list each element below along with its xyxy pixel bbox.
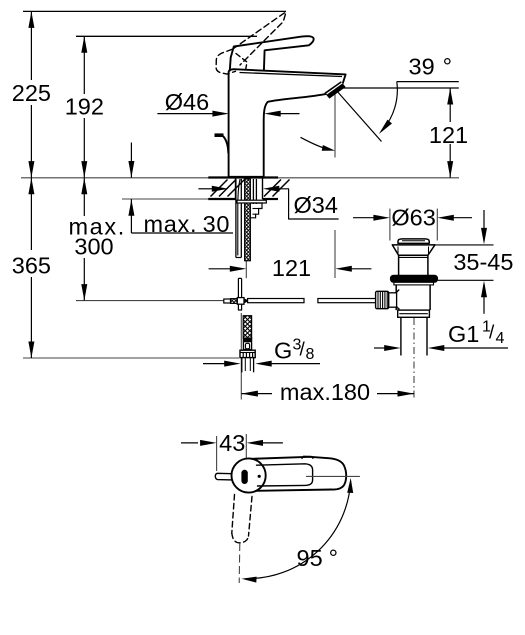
dashed handle center line xyxy=(238,543,241,583)
faucet body + spout outline xyxy=(229,69,346,177)
counter cut bottom line left xyxy=(208,198,235,200)
waste body left bulge xyxy=(395,290,399,309)
extension line: top of lifted lever (225 ref) xyxy=(23,10,286,12)
shank: right tube xyxy=(252,179,254,204)
label max. xyxy=(66,216,126,238)
top view: slot bar xyxy=(242,470,247,483)
label max180 xyxy=(272,383,377,403)
svg-text:43: 43 xyxy=(219,430,245,456)
top view: top notch xyxy=(302,456,313,458)
pull rod bend xyxy=(224,137,229,153)
d46 underline / leader xyxy=(157,113,213,115)
dimension line 35-45 upper xyxy=(483,210,485,241)
dimension line 192 xyxy=(83,36,85,177)
countertop surface line xyxy=(21,177,459,179)
mounting washer xyxy=(237,200,266,203)
waste body xyxy=(395,285,397,310)
extension line: faucet supply axis (max180 left) xyxy=(240,313,242,400)
dimension line max 300 xyxy=(83,178,85,301)
G3/8 right tail / underline xyxy=(271,363,320,365)
svg-text:121: 121 xyxy=(429,122,468,148)
dimension line d63 left tail xyxy=(353,217,384,219)
svg-text:8: 8 xyxy=(306,346,315,363)
dimension line max180 xyxy=(241,393,414,395)
d46 right tail xyxy=(270,113,300,115)
shank: threaded rod xyxy=(245,179,251,261)
dimension line 121 right xyxy=(449,88,451,178)
top view: dot xyxy=(258,475,261,478)
extension line: waste rim right (d63) xyxy=(436,209,438,241)
waste flange xyxy=(394,282,434,285)
svg-text:max.180: max.180 xyxy=(280,379,370,405)
label 300 xyxy=(71,238,118,258)
lifted handle inner dashes xyxy=(236,54,247,71)
label 225 xyxy=(12,80,52,105)
extension line: top of lever (192 ref) xyxy=(76,35,257,37)
waste gasket (black) xyxy=(390,275,437,282)
svg-text:365: 365 xyxy=(12,252,51,278)
extension line: hose end level (365 ref) xyxy=(23,357,239,359)
top view: pivot tab xyxy=(215,473,232,480)
rod left stub xyxy=(224,299,231,303)
svg-text:Ø46: Ø46 xyxy=(165,89,209,115)
dimension line 35-45 lower xyxy=(483,284,485,314)
extension line: spout outlet vertical (121 reach, upper) xyxy=(334,90,336,158)
horizontal pop-up rod (broken) xyxy=(248,299,304,303)
underline of 39 deg label xyxy=(397,81,459,83)
top view: handle down position (dashed) xyxy=(232,495,235,534)
waste rim cone xyxy=(392,244,435,246)
dimension line d63 right tail xyxy=(443,217,472,219)
dimension line max30 upper xyxy=(130,143,132,178)
svg-text:35-45: 35-45 xyxy=(453,249,513,275)
supply nipple tube xyxy=(241,358,243,373)
svg-text:300: 300 xyxy=(74,233,113,259)
dimension 121 reach left tail xyxy=(209,268,241,270)
dimension line 225 xyxy=(30,11,32,177)
svg-text:/: / xyxy=(489,323,495,344)
clamp wedge xyxy=(244,298,248,303)
d34 leader elbow + underline xyxy=(277,189,339,219)
counter cut bottom line right xyxy=(263,198,279,200)
waste plug cap xyxy=(398,239,429,244)
top view: pivot circle xyxy=(232,458,266,492)
43 right extent xyxy=(245,434,247,463)
pop-up vertical rod xyxy=(238,278,241,297)
cross clamp hatched block xyxy=(231,299,238,304)
hose crimp collar xyxy=(243,338,251,349)
top view: lever inner outline xyxy=(257,464,313,486)
label 121 height xyxy=(428,122,470,144)
center line of faucet shank xyxy=(245,261,247,278)
svg-text:Ø63: Ø63 xyxy=(391,204,435,230)
braided supply hose xyxy=(243,316,251,338)
waste knob neck xyxy=(389,293,397,307)
hose bottom cap xyxy=(236,257,241,259)
counter hatching xyxy=(211,180,228,197)
dimension line 365 xyxy=(30,178,32,358)
extension line: spout outlet vertical (121 reach, lower) xyxy=(334,230,336,278)
extension line: spout outlet level xyxy=(339,87,459,89)
shank: curved hose xyxy=(235,179,237,258)
svg-text:Ø34: Ø34 xyxy=(293,192,337,218)
handle lever lifted (dashed) xyxy=(233,12,287,65)
hose inner curve xyxy=(238,180,240,256)
stream direction ray 39deg xyxy=(336,90,382,142)
dimension line max30 lower + bracket xyxy=(130,199,132,233)
waste knurled knob xyxy=(376,291,389,308)
svg-text:192: 192 xyxy=(65,93,104,119)
pull rod horizontal xyxy=(215,133,224,137)
label 192 xyxy=(64,94,105,118)
handle lever (solid position) xyxy=(230,36,314,70)
waste tailpipe xyxy=(400,317,402,355)
counter cut top line xyxy=(208,176,278,178)
svg-text:39°: 39° xyxy=(409,53,453,79)
svg-text:4: 4 xyxy=(496,330,505,347)
extension line: waste rim left (d63) xyxy=(389,209,391,241)
center line of waste set xyxy=(413,318,415,400)
mounting nut steps xyxy=(251,203,262,218)
dimension 121 reach right tail xyxy=(341,268,371,270)
top view: center line xyxy=(306,475,360,477)
svg-text:121: 121 xyxy=(272,255,311,281)
aerator (black slanted outlet) xyxy=(324,81,345,98)
d34 left arrow tail xyxy=(198,188,212,190)
top view: 43 dimension xyxy=(181,442,198,444)
arc 39 deg xyxy=(382,82,398,131)
hose right wall xyxy=(240,179,242,258)
svg-text:G1: G1 xyxy=(448,321,479,347)
dashed handle end cap xyxy=(232,533,249,543)
counter underside line (thin part) xyxy=(122,198,209,200)
43 left extent xyxy=(216,436,218,471)
lifted handle hub (dashed) xyxy=(216,49,235,74)
G1-1/4 left arrow tail xyxy=(374,347,389,349)
d34 right arrow xyxy=(263,186,280,192)
G3/8 left arrow tail xyxy=(203,363,225,365)
cross clamp body xyxy=(237,298,244,305)
waste upper cylinder xyxy=(398,255,400,275)
95 deg swing arc xyxy=(246,482,351,579)
svg-text:95°: 95° xyxy=(297,545,339,571)
extension line: waste gasket bottom (35-45 bottom) xyxy=(438,279,494,281)
svg-text:max. 30: max. 30 xyxy=(144,211,231,237)
G1-1/4 right tail / underline xyxy=(434,347,508,349)
mounting hole right wall xyxy=(262,178,264,200)
svg-text:G: G xyxy=(274,337,292,363)
label 365 xyxy=(11,250,52,277)
extension line: waste rim top (35-45 top) xyxy=(432,244,494,246)
flow direction arc at spout xyxy=(301,137,329,149)
spout inner top line xyxy=(240,73,343,77)
G3/8 nut xyxy=(240,350,255,357)
mounting hole left wall xyxy=(235,178,237,200)
svg-text:225: 225 xyxy=(12,80,51,106)
waste bottom ring xyxy=(398,310,430,317)
extension line: pop-up rod level (max300 ref) xyxy=(76,300,231,302)
top view: lever outline xyxy=(253,457,347,491)
